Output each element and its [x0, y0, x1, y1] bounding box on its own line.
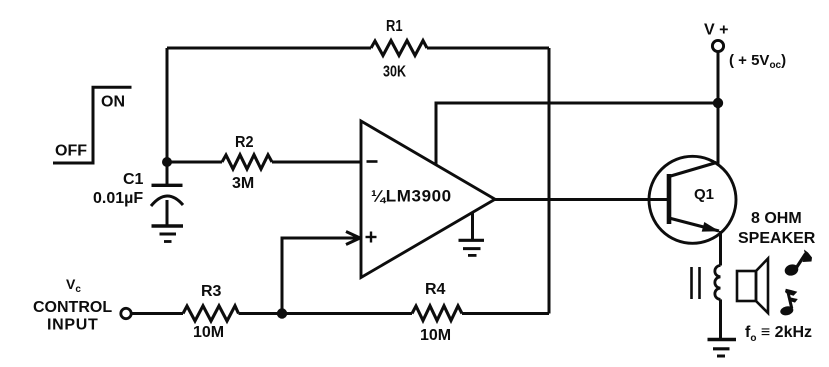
- svg-text:OFF: OFF: [55, 143, 87, 160]
- resistor R2: [222, 134, 272, 192]
- ground (speaker): [708, 340, 737, 357]
- wire: top rail left segment: [167, 47, 371, 50]
- svg-text:C1: C1: [123, 171, 144, 188]
- wire: C1 node up to top rail: [166, 48, 169, 162]
- wire: emitter down to voice coil: [719, 231, 722, 266]
- ground (C1): [152, 226, 184, 242]
- svg-text:30K: 30K: [383, 64, 406, 81]
- resistor R4: [412, 281, 462, 344]
- svg-text:10M: 10M: [420, 327, 451, 344]
- non-inverting input wire with arrow: [282, 232, 360, 314]
- svg-text:ON: ON: [101, 94, 125, 111]
- wire: op-amp output to Q1 base: [495, 198, 667, 201]
- svg-text:INPUT: INPUT: [47, 317, 99, 334]
- wire: R3 to junction: [239, 312, 413, 315]
- wire: coil to ground: [719, 299, 722, 339]
- svg-text:CONTROL: CONTROL: [33, 299, 112, 316]
- svg-text:V +: V +: [704, 22, 728, 39]
- svg-text:R2: R2: [235, 134, 254, 151]
- svg-text:R3: R3: [201, 283, 222, 300]
- svg-text:¼LM3900: ¼LM3900: [371, 187, 452, 206]
- node: C1 / R2 junction: [162, 157, 172, 167]
- label: 8 OHM SPEAKER: [738, 210, 816, 247]
- wire: right vertical feedback bus: [548, 48, 551, 314]
- capacitor C1: [93, 162, 183, 225]
- node: R3/R4 junction: [277, 308, 287, 318]
- speaker magnet bars: [692, 267, 700, 299]
- terminal: V+ supply: [704, 22, 786, 72]
- svg-text:8 OHM: 8 OHM: [751, 210, 802, 227]
- ground (op-amp): [459, 212, 485, 255]
- svg-text:R4: R4: [425, 281, 446, 298]
- wire: R2 to inverting input: [272, 161, 361, 164]
- transistor Q1: [649, 156, 736, 243]
- music note 2: [779, 289, 797, 317]
- svg-text:SPEAKER: SPEAKER: [738, 230, 816, 247]
- music note 1: [783, 250, 812, 278]
- resistor R1: [371, 18, 427, 81]
- resistor R3: [183, 283, 239, 341]
- op-amp U1 1/4 LM3900: [361, 121, 495, 278]
- node: V+ rail junction: [713, 98, 723, 108]
- wire: V+ down to collector: [717, 52, 720, 165]
- svg-text:R1: R1: [386, 18, 403, 35]
- wire: top rail right segment: [427, 47, 549, 50]
- svg-text:0.01µF: 0.01µF: [93, 190, 143, 207]
- op-amp V+ pin wire: [436, 103, 718, 165]
- wire: R4 to right bus: [462, 312, 549, 315]
- speaker icon: [737, 259, 768, 314]
- inductor: speaker voice coil: [715, 266, 721, 300]
- svg-text:Q1: Q1: [694, 186, 714, 203]
- wire: junction to R2: [167, 161, 222, 164]
- terminal: Vc control input: [33, 276, 131, 334]
- svg-text:10M: 10M: [193, 324, 224, 341]
- step waveform ON/OFF annotation: [53, 87, 132, 163]
- svg-text:3M: 3M: [232, 175, 254, 192]
- wire: input terminal to R3: [132, 312, 184, 315]
